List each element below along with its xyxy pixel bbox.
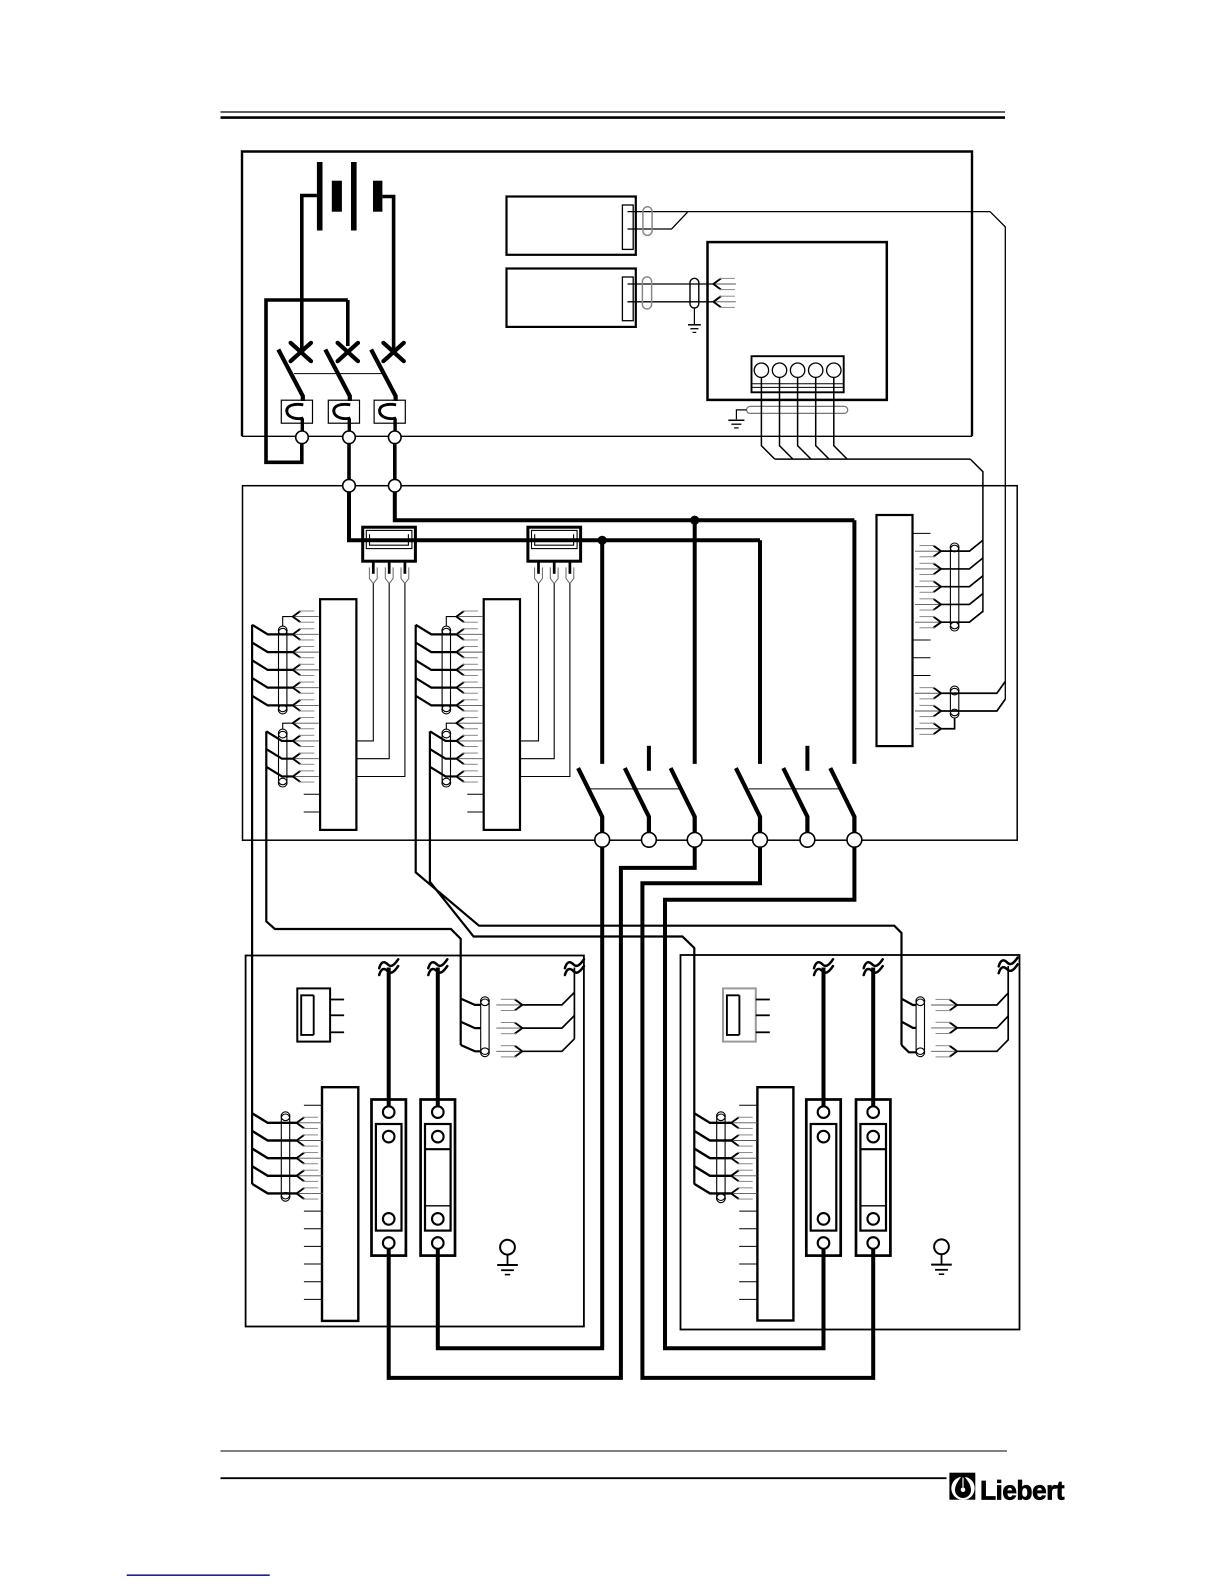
interface box (charger module) [708,242,887,400]
breaker pole 2 wire from bypass bus [346,300,350,346]
block J2 pin 1 [537,561,540,574]
wire to fuse F1L [387,968,391,1107]
strip TS-A pin 6 [293,700,301,711]
breaker CB1 pole 1 thermal element [281,400,312,423]
contactor K1 pole 6 blade [830,768,854,832]
strip TS-B pin 7 [456,718,464,729]
strip TS-R pin 5 [731,1188,739,1199]
strip TS-L pin 5 [297,1188,305,1199]
strip TS-B harness fan lower [430,731,457,741]
wire module A1 upper lead [628,211,991,213]
fuse holder F2R [856,1100,890,1256]
connector block J2 [528,527,581,561]
contactor K1 pole 2 terminal [642,832,657,847]
strip TS-B harness fan upper [416,625,457,635]
wire contactor pole4 to fuse F2R [642,847,873,1378]
contactor K1 pole 2 blade [625,768,649,832]
enclosure box: distribution section [243,486,1018,841]
ground stud right bay [934,1239,949,1254]
breaker CB1 pole 3 terminal [389,431,402,444]
strip TS-A pin 3 [293,647,301,658]
wires aux pins to output break right [957,993,1008,1005]
strip TS-L pin 4 [297,1170,305,1181]
connector block J1 [363,527,416,561]
contactor K1 pole 3 blade [671,768,695,832]
connector lacing left bay aux [481,999,489,1055]
connector lacing right bay aux [916,999,924,1055]
terminal pole3 on middle box edge [389,479,402,492]
breaker CB1 pole 2 terminal [343,431,356,444]
aux pin left bay 3 [515,1046,523,1057]
ground lead of bus bar [736,410,746,419]
breaker CB1 pole 1 blade [278,350,303,402]
strip TS-C pin row 3 [933,581,941,592]
strip TS-A harness fan lower [266,731,293,741]
breaker CB1 pole 3 thermal element [374,400,405,423]
aux pin right bay 2 [950,1022,958,1033]
strip TS-C pin row 4 [933,599,941,610]
strip TS-A pin 8 [293,735,301,746]
wire contactor pole3 to fuse F1L [389,847,695,1378]
contactor K1 feeder pole3 [693,520,697,764]
terminal pole2 on middle box edge [343,479,356,492]
contactor K1 tie bar right [749,788,841,790]
strip TS-L pin 2 [297,1135,305,1146]
strip TS-L pin 3 [297,1153,305,1164]
breaker CB1 pole 2 thermal element [328,400,359,423]
wires TS-C upper pins to TB1 harness [941,540,983,551]
page header double rule [221,111,1006,113]
strip TS-C pin row 1 [933,546,941,557]
strip TS-R pin 3 [731,1153,739,1164]
strip TS-C pin row 10 [933,705,941,716]
breaker CB1 pole 1 terminal [296,431,309,444]
contactor K1 spare stub pole5 [805,746,809,771]
harness B lower feeder to lower-right bay fan [430,731,694,1184]
bypass loop around breaker pole 1 [266,300,348,462]
cable break F1R [814,959,833,968]
terminal TB1-1 [754,363,768,377]
crimp pin into interface box upper [713,278,721,289]
aux pin left bay 1 [515,999,523,1010]
contactor K1 pole 1 blade [578,768,602,832]
strip TS-A ticks [304,793,320,795]
contactor K1 pole 4 terminal [753,832,768,847]
wires block J1 pins to assembly A [358,584,374,741]
terminal strip TS-L [322,1087,358,1321]
strip TS-A pin 5 [293,682,301,693]
contactor K1 pole 3 terminal [687,832,702,847]
wires TS-C lower pins to module A1 harness [941,681,1005,693]
connector sleeve on module A1 leads [643,207,652,236]
strip TS-B pin 8 [456,735,464,746]
ground stud left bay [500,1240,515,1255]
strip TS-B lacing lower [442,731,450,785]
strip TS-R pin 4 [731,1170,739,1181]
crimp pin into interface box lower [713,296,721,307]
wire to fuse F2R [871,968,875,1107]
bus from pole2 (lower) [349,492,760,540]
strip TS-A pin 7 [293,718,301,729]
fuse holder F2L [421,1100,455,1256]
wire contactor pole1 to fuse F2L [438,847,602,1348]
terminal strip TS-C (right) [877,515,913,746]
strip TS-C pin row 5 [933,617,941,628]
wires block J2 pins to assembly B [521,584,539,741]
strip TS-A pin 2 [293,629,301,640]
svg-text:Liebert: Liebert [980,1476,1065,1506]
strip TS-R ticks [739,1104,757,1106]
wire module A1 harness to right side [990,212,1005,700]
feeder into aux connector right [902,999,917,1005]
strip TS-A pin 9 [293,753,301,764]
contactor K1 pole 5 terminal [800,832,815,847]
wire battery left to breaker pole 1 [302,196,317,352]
strip TS-R pin 2 [731,1135,739,1146]
block J2 pin 2 [553,561,556,574]
ground at connector plug [693,308,695,324]
terminal TB1-5 [827,363,841,377]
terminal strip TS-A [320,599,356,830]
strip TS-C pin row 2 [933,563,941,574]
strip TS-C ticks [913,532,931,534]
breaker CB1 pole 3 blade [371,350,396,402]
wire contactor pole6 to fuse F1R [665,847,854,1348]
contactor K1 spare stub pole2 [647,746,651,771]
fuse holder F1L [372,1100,406,1256]
strip TS-R pin 1 [731,1117,739,1128]
strip TS-A pin7 jumper to lacing [283,723,294,729]
relay card right bay [723,988,756,1041]
battery B1 plates [317,162,323,231]
block J1 pin 2 [388,561,391,574]
aux pin left bay 2 [515,1023,523,1034]
contactor K1 feeder pole6 [852,520,856,764]
breaker CB1 pole 3 contact X [383,343,403,361]
strip TS-C lacing lower [950,688,958,716]
strip TS-A pin 10 [293,771,301,782]
feeder into aux connector left [461,999,481,1005]
enclosure box: output bay right [681,955,1020,1330]
strip TS-B pin 3 [456,647,464,658]
contactor K1 pole 4 blade [736,768,760,832]
wire battery right to breaker pole 3 [382,197,393,351]
strip TS-C pin row 9 [933,688,941,699]
terminal TB1-4 [809,363,823,377]
strip TS-B pin 4 [456,664,464,675]
cable break F2R [864,959,883,968]
strip TS-R lacing [717,1114,725,1201]
module A1 (control card) [507,197,636,255]
ground bus bar under TB1 [747,406,848,413]
harness fan into TS-R [694,1113,731,1123]
wire pole 2 to middle section [347,444,351,480]
breaker CB1 pole 2 contact X [338,343,358,361]
strip TS-B pin 6 [456,700,464,711]
strip TS-A pin1 jumper to lacing [283,617,294,627]
strip TS-B ticks [467,793,483,795]
strip TS-A pin 4 [293,664,301,675]
relay card left bay [297,988,330,1041]
strip TS-B pin 1 [456,611,464,622]
wire module A1 lower lead merging [628,212,688,229]
contactor K1 tie bar left [591,788,680,790]
harness A upper feeder down to lower-left bay [251,625,253,1184]
terminal block TB1 with 5 screws [752,356,844,392]
harness output right [1007,966,1009,1040]
strip TS-B pin 2 [456,629,464,640]
enclosure box: rectifier/input section [242,152,972,437]
wire to fuse F1R [822,968,826,1107]
cable break output right [999,958,1018,967]
harness output left [573,968,575,1039]
contactor K1 feeder pole4 [758,540,762,764]
Liebert logo mark [949,1473,975,1500]
strip TS-B pin 9 [456,753,464,764]
terminal strip TS-R [757,1087,793,1320]
strip TS-C lacing upper [950,545,958,629]
harness fan into TS-L [252,1113,297,1123]
harness TB1 to middle right connector [761,377,774,459]
harness A lower feeder to lower-left bay connector [266,731,460,1045]
wire to fuse F2L [436,968,440,1107]
strip TS-A lacing lower [279,731,287,785]
block J1 pin 1 [372,561,375,574]
enclosure box: output bay left [246,956,584,1327]
bus from pole3 (upper) [395,492,855,520]
connector sleeve on module A2 leads [642,277,651,309]
junction dot upper bus [690,516,699,525]
page footer double rule [221,1450,1008,1452]
strip TS-B pin 5 [456,682,464,693]
strip TS-A harness fan upper [252,625,293,635]
contactor K1 pole 6 terminal [847,832,862,847]
strip TS-A lacing upper [279,628,287,711]
fuse holder F1R [806,1100,840,1256]
block J1 pin 3 [404,561,407,574]
wire pole 3 to middle section [393,444,397,480]
strip TS-L pin 1 [297,1117,305,1128]
connector plug near interface box [690,278,699,308]
strip TS-L lacing [281,1114,289,1199]
harness B upper feeder to lower-right bay connector [416,625,902,1045]
strip TS-B pin7 jumper to lacing [446,723,457,729]
strip TS-B pin 10 [456,771,464,782]
terminal strip TS-B [484,599,520,830]
wires aux pins to output break left [522,992,574,1005]
strip TS-L ticks [304,1104,322,1106]
footer margin mark [127,1574,270,1576]
terminal TB1-2 [772,363,786,377]
aux pin right bay 1 [950,999,958,1010]
cable break F2L [428,959,447,968]
cable break output left [565,959,584,968]
block J2 pin 3 [569,561,572,574]
junction dot lower bus [598,536,607,545]
contactor K1 pole 5 blade [783,768,807,832]
module A2 (control card) [507,269,636,327]
wire module A2 leads [628,283,713,285]
strip TS-A pin 1 [293,611,301,622]
strip TS-B lacing upper [442,628,450,711]
contactor K1 feeder pole1 [600,540,604,764]
strip TS-C pin row 11 [933,723,941,734]
cable break F1L [379,959,398,968]
aux pin right bay 3 [950,1046,958,1057]
breaker CB1 pole 1 contact X [291,343,311,361]
breaker CB1 pole 2 blade [325,350,350,402]
strip TS-B pin1 jumper to lacing [446,617,457,627]
circuit breaker CB1 tie bar [294,373,382,375]
terminal TB1-3 [790,363,804,377]
contactor K1 pole 1 terminal [595,832,610,847]
wire TS-C pin12 to lacing [941,718,955,729]
